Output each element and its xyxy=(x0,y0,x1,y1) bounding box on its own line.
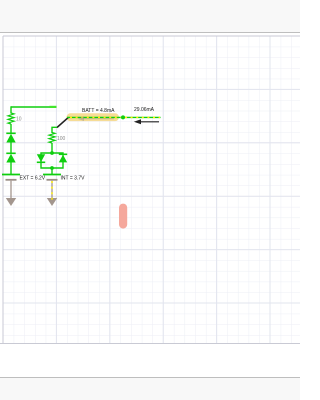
node diode-pair bottom xyxy=(50,166,54,170)
svg-text:BATT = 4.8mA: BATT = 4.8mA xyxy=(82,108,115,114)
diode D1 (up) xyxy=(6,132,15,134)
wire BATT to Q1 xyxy=(123,116,161,118)
node diode-pair top xyxy=(50,151,54,155)
resistor 10 xyxy=(8,113,14,124)
diode D4 (up) xyxy=(59,153,67,155)
diode D2 (up) xyxy=(6,152,15,154)
svg-text:100: 100 xyxy=(57,136,66,142)
svg-text:EXT = 6.2V: EXT = 6.2V xyxy=(20,176,46,182)
ground EXT xyxy=(10,181,12,199)
ground INT xyxy=(51,181,53,199)
battery EXT xyxy=(2,174,20,176)
switch SW1 throw stub xyxy=(50,106,57,108)
diode pair frame xyxy=(41,153,63,168)
current arrow faint BATT xyxy=(83,118,114,120)
svg-text:29.06mA: 29.06mA xyxy=(134,107,155,113)
node BATT/main xyxy=(121,115,125,119)
selection glow BATT wire xyxy=(67,113,120,121)
svg-text:10: 10 xyxy=(16,117,22,123)
wire xyxy=(10,163,12,175)
switch SW1 blade xyxy=(57,117,69,127)
wire xyxy=(51,168,53,174)
battery INT xyxy=(43,174,61,176)
svg-text:INT = 3.7V: INT = 3.7V xyxy=(61,176,86,182)
wire BATT xyxy=(67,116,123,118)
wire xyxy=(10,143,12,154)
wire EXT top xyxy=(11,106,56,108)
resistor 100 xyxy=(49,133,55,144)
wire xyxy=(10,124,12,133)
selection glow CMOS/RTC wire xyxy=(119,204,127,229)
wire EXT column top xyxy=(10,106,12,113)
diode D3 (down) xyxy=(37,154,45,162)
wire SW1 to R100 xyxy=(52,127,57,133)
wire xyxy=(51,143,53,153)
